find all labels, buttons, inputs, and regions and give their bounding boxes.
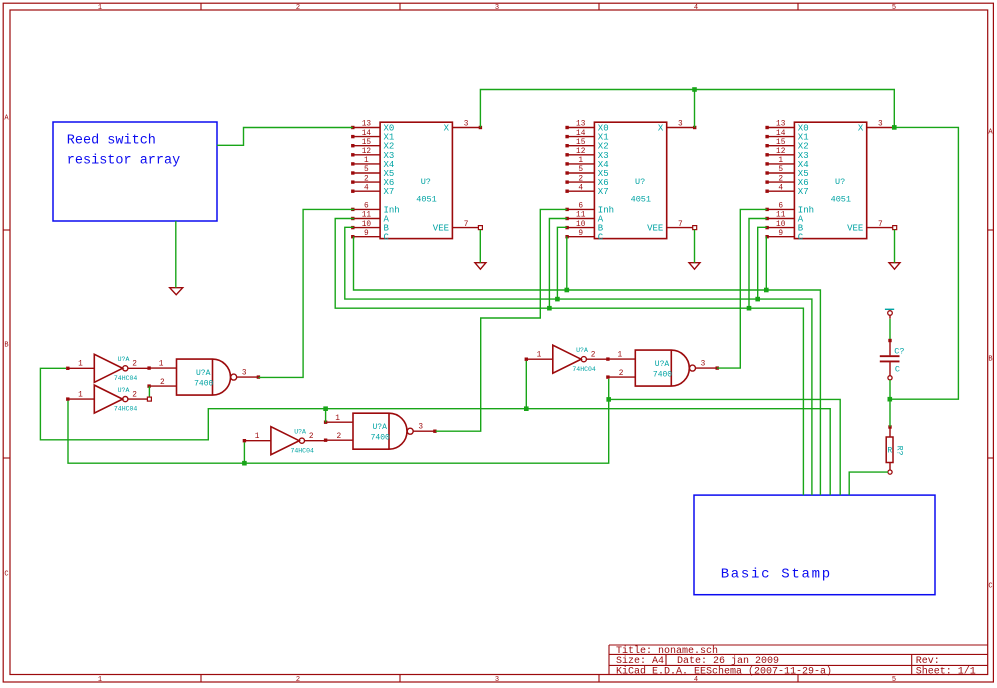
U1 pin 13 (X0): [351, 121, 394, 134]
svg-text:X: X: [658, 124, 664, 134]
U3 pin 13 (X0): [765, 121, 808, 134]
wire: U3 pin11 A to A net: [749, 219, 767, 309]
svg-text:74HC04: 74HC04: [114, 375, 138, 382]
wire: connector pin down to capacitor C?: [889, 319, 891, 339]
svg-text:9: 9: [364, 230, 369, 238]
svg-text:2: 2: [296, 676, 300, 684]
svg-text:10: 10: [362, 221, 372, 229]
wire: NAND U5A output to U1 Inh (pin 6): [258, 209, 354, 377]
svg-text:2: 2: [619, 370, 624, 378]
svg-text:1: 1: [255, 433, 260, 441]
wire: inverter U4B output up to NAND U5A pin 2: [148, 386, 150, 399]
wire: Reed sheet output to U1 X0 (pin 13): [217, 128, 353, 146]
svg-text:2: 2: [296, 4, 300, 12]
junction U2 B on B net: [555, 297, 560, 302]
svg-text:3: 3: [495, 4, 499, 12]
frame column numbers top 1-5: [98, 4, 896, 12]
U3 pin 5 (X5): [765, 166, 808, 179]
svg-text:Basic Stamp: Basic Stamp: [721, 567, 832, 583]
wire: U2 pin10 B to B net: [557, 227, 567, 299]
junction U3 A on A net: [747, 306, 752, 311]
U2 pin 2 (X6): [565, 175, 608, 188]
svg-text:14: 14: [362, 130, 372, 138]
svg-text:13: 13: [576, 121, 586, 129]
U2 pin 12 (X3): [565, 148, 608, 161]
svg-text:13: 13: [362, 121, 372, 129]
wire: tap to inverter U4C input: [243, 442, 245, 463]
svg-text:3: 3: [701, 361, 706, 369]
svg-text:Size: A4: Size: A4: [616, 655, 664, 667]
wire: Basic Stamp strobe net to U4A input / U5B pin1 / U4D input: [40, 368, 830, 495]
svg-text:4: 4: [778, 184, 783, 192]
svg-text:7400: 7400: [194, 379, 213, 388]
U1 pin 10 (B): [351, 221, 389, 234]
svg-text:7400: 7400: [653, 370, 672, 379]
svg-text:74HC04: 74HC04: [572, 366, 596, 373]
svg-text:15: 15: [576, 139, 586, 147]
svg-text:C: C: [598, 233, 604, 243]
U3 pin 15 (X2): [765, 139, 808, 152]
wire: U2 VEE to ground: [694, 230, 696, 263]
svg-text:74HC04: 74HC04: [290, 447, 314, 454]
svg-text:U?A: U?A: [118, 387, 130, 394]
svg-text:5: 5: [892, 4, 896, 12]
capacitor C?: [880, 339, 900, 380]
svg-text:U?: U?: [835, 177, 845, 187]
svg-text:3: 3: [878, 121, 883, 129]
svg-text:X7: X7: [598, 187, 609, 197]
inverter U4B (74HC04): [66, 385, 149, 413]
wire: U1 X output up and across top bus: [480, 90, 894, 128]
NAND gate U5B (7400): [324, 413, 437, 449]
inverter U4D (74HC04): [525, 345, 608, 373]
U2 pin 3 (X output): [658, 121, 697, 134]
U2 pin 15 (X2): [565, 139, 608, 152]
U3 pin 4 (X7): [765, 184, 808, 197]
svg-text:7: 7: [878, 221, 883, 229]
U1 pin 2 (X6): [351, 175, 394, 188]
U3 pin 12 (X3): [765, 148, 808, 161]
svg-text:12: 12: [576, 148, 586, 156]
multiplexer U3 (4051) body: [794, 122, 866, 238]
junction node C?/R?/U3-X: [888, 397, 893, 402]
U1 pin 4 (X7): [351, 184, 394, 197]
wire: U3 pin10 B to B net: [758, 227, 767, 299]
wire: select line C net - U1 pin9 across to Basic Stamp: [354, 236, 821, 495]
svg-text:2: 2: [132, 392, 137, 400]
svg-text:12: 12: [362, 148, 372, 156]
svg-text:2: 2: [336, 433, 341, 441]
U1 pin 6 (Inh): [351, 203, 400, 216]
U3 pin 1 (X4): [765, 157, 808, 170]
svg-text:7: 7: [678, 221, 683, 229]
U1 pin 7 (VEE): [433, 221, 483, 234]
multiplexer U1 (4051) body: [380, 122, 452, 238]
svg-text:VEE: VEE: [647, 224, 663, 234]
U3 pin 9 (C): [765, 230, 803, 243]
svg-text:2: 2: [591, 352, 596, 360]
wire: select line A net - U1 pin11 across to Basic Stamp: [335, 219, 803, 496]
multiplexer U2 (4051) body: [594, 122, 666, 238]
svg-text:VEE: VEE: [433, 224, 449, 234]
svg-text:C: C: [895, 364, 900, 374]
wire: NAND U5C output to U3 Inh (pin 6): [717, 209, 767, 368]
U2 pin 9 (C): [565, 230, 603, 243]
svg-text:4051: 4051: [831, 195, 851, 205]
junction strobe net / U5B pin1: [323, 406, 328, 411]
frame column numbers bottom 1-5: [98, 676, 896, 684]
wire: U5C pin2 down and across to U4B input: [68, 379, 609, 463]
wire: Basic Stamp clock net to NAND U5C pin2 vertical: [610, 399, 841, 495]
svg-text:C?: C?: [894, 346, 904, 356]
svg-text:1: 1: [98, 4, 102, 12]
wire: tap to inverter U4D input: [525, 361, 527, 409]
junction U3 C on C net: [764, 288, 769, 293]
svg-text:B: B: [988, 356, 992, 364]
junction U2 C on C net: [565, 288, 570, 293]
junction at U2 X output / top bus: [692, 87, 697, 92]
svg-text:14: 14: [776, 130, 786, 138]
frame row letters left A B C: [4, 115, 9, 579]
node: U4B output to U5A pin2 connection: [147, 397, 151, 401]
U3 pin 6 (Inh): [765, 203, 814, 216]
NAND gate U5A (7400): [147, 359, 260, 395]
U3 pin 14 (X1): [765, 130, 808, 143]
ground at U3 VEE: [889, 263, 900, 270]
svg-text:1: 1: [578, 157, 583, 165]
junction strobe net / U4D input: [524, 406, 529, 411]
svg-text:9: 9: [578, 230, 583, 238]
svg-text:X: X: [444, 124, 450, 134]
svg-text:7400: 7400: [371, 433, 390, 442]
svg-text:10: 10: [576, 221, 586, 229]
svg-text:4: 4: [694, 4, 698, 12]
svg-text:1: 1: [364, 157, 369, 165]
svg-text:10: 10: [776, 221, 786, 229]
svg-text:11: 11: [776, 212, 786, 220]
svg-text:3: 3: [418, 424, 423, 432]
svg-text:R?: R?: [895, 446, 904, 456]
wire: node down to resistor R? top: [889, 399, 891, 427]
frame row ticks right: [988, 230, 994, 458]
frame column ticks bottom: [201, 675, 798, 683]
svg-text:6: 6: [364, 203, 369, 211]
svg-text:1: 1: [78, 361, 83, 369]
wire: U1 VEE to ground: [479, 230, 481, 263]
svg-text:U?A: U?A: [196, 369, 211, 378]
junction clock net / U4C input: [242, 461, 247, 466]
svg-text:VEE: VEE: [847, 224, 863, 234]
svg-text:11: 11: [576, 212, 586, 220]
svg-text:2: 2: [364, 175, 369, 183]
svg-text:B: B: [4, 342, 8, 350]
U2 pin 4 (X7): [565, 184, 608, 197]
svg-text:4: 4: [578, 184, 583, 192]
U1 pin 5 (X5): [351, 166, 394, 179]
svg-text:A: A: [988, 129, 993, 137]
svg-text:X7: X7: [384, 187, 395, 197]
U2 pin 14 (X1): [565, 130, 608, 143]
wire: NAND U5B output to U2 Inh (pin 6): [436, 209, 567, 431]
svg-text:U?: U?: [635, 177, 645, 187]
svg-text:2: 2: [160, 379, 165, 387]
svg-text:KiCad E.D.A. EESchema (2007-1: KiCad E.D.A. EESchema (2007-11-29-a): [616, 665, 832, 677]
ground at U1 VEE: [475, 263, 486, 270]
svg-text:14: 14: [576, 130, 586, 138]
inverter U4A (74HC04): [66, 354, 149, 382]
svg-text:6: 6: [578, 203, 583, 211]
svg-text:12: 12: [776, 148, 786, 156]
title block outline: [609, 645, 988, 675]
U2 pin 1 (X4): [565, 157, 608, 170]
U3 pin 10 (B): [765, 221, 803, 234]
svg-text:Title: noname.sch: Title: noname.sch: [616, 645, 718, 657]
wire: U2 X output to top bus: [694, 90, 696, 128]
svg-text:U?A: U?A: [294, 428, 306, 435]
svg-text:X: X: [858, 124, 864, 134]
svg-text:13: 13: [776, 121, 786, 129]
svg-text:1: 1: [159, 361, 164, 369]
svg-text:1: 1: [537, 352, 542, 360]
wire: U2 pin11 A to A net: [549, 219, 567, 309]
U3 pin 7 (VEE): [847, 221, 897, 234]
svg-text:5: 5: [364, 166, 369, 174]
svg-text:R: R: [887, 447, 892, 456]
wire: U3 pin9 C to C net: [765, 236, 767, 290]
svg-text:Sheet: 1/1: Sheet: 1/1: [916, 665, 976, 677]
svg-text:Reed switch: Reed switch: [67, 134, 156, 149]
svg-text:4051: 4051: [631, 195, 651, 205]
svg-text:C: C: [4, 571, 8, 579]
junction at U3 X output pin: [892, 125, 897, 130]
svg-text:A: A: [4, 115, 9, 123]
svg-text:U?A: U?A: [118, 356, 130, 363]
wire: resistor R? bottom to Basic Stamp: [849, 472, 888, 495]
junction U3 B on B net: [755, 297, 760, 302]
NAND gate U5C (7400): [606, 350, 719, 386]
U1 pin 12 (X3): [351, 148, 394, 161]
svg-text:1: 1: [98, 676, 102, 684]
svg-text:5: 5: [778, 166, 783, 174]
sheet box: Basic Stamp: [694, 495, 935, 595]
U1 pin 9 (C): [351, 230, 389, 243]
svg-text:6: 6: [778, 203, 783, 211]
svg-text:C: C: [988, 583, 992, 591]
svg-text:4051: 4051: [416, 195, 436, 205]
U3 pin 11 (A): [765, 212, 803, 225]
svg-text:3: 3: [242, 370, 247, 378]
svg-text:2: 2: [778, 175, 783, 183]
frame row letters right A B C: [988, 129, 993, 591]
wire: select line B net - U1 pin10 across to Basic Stamp: [345, 227, 812, 495]
ground below Reed switch sheet: [170, 288, 183, 295]
connector pin P? (top of C?): [885, 309, 894, 319]
wire: U3 VEE to ground: [894, 230, 896, 263]
svg-text:15: 15: [776, 139, 786, 147]
U1 pin 15 (X2): [351, 139, 394, 152]
inverter U4C (74HC04): [243, 427, 326, 455]
U1 pin 14 (X1): [351, 130, 394, 143]
U3 pin 2 (X6): [765, 175, 808, 188]
svg-text:3: 3: [464, 121, 469, 129]
svg-text:3: 3: [495, 676, 499, 684]
U2 pin 5 (X5): [565, 166, 608, 179]
svg-text:15: 15: [362, 139, 372, 147]
U2 pin 10 (B): [565, 221, 603, 234]
svg-text:2: 2: [578, 175, 583, 183]
svg-text:resistor array: resistor array: [67, 153, 180, 168]
svg-text:C: C: [798, 233, 804, 243]
junction clock net on U5C pin2 vertical: [606, 397, 611, 402]
svg-text:1: 1: [335, 415, 340, 423]
svg-text:U?A: U?A: [576, 347, 588, 354]
U3 pin 3 (X output): [858, 121, 897, 134]
U2 pin 6 (Inh): [565, 203, 614, 216]
svg-text:U?A: U?A: [372, 423, 387, 432]
junction U2 A on A net: [547, 306, 552, 311]
frame row ticks left: [3, 230, 10, 458]
svg-text:4: 4: [364, 184, 369, 192]
U2 pin 11 (A): [565, 212, 603, 225]
wire: U2 pin9 C to C net: [566, 236, 568, 290]
svg-text:7: 7: [464, 221, 469, 229]
svg-text:X7: X7: [798, 187, 809, 197]
U1 pin 11 (A): [351, 212, 389, 225]
wire: tap to NAND U5B pin 1: [325, 409, 327, 423]
frame column ticks top: [201, 3, 798, 10]
ground at U2 VEE: [689, 263, 700, 270]
svg-text:11: 11: [362, 212, 372, 220]
sheet box: Reed switch resistor array: [53, 122, 217, 221]
U1 pin 1 (X4): [351, 157, 394, 170]
svg-text:U?A: U?A: [655, 360, 670, 369]
U2 pin 13 (X0): [565, 121, 608, 134]
wire: U3 X output right then down to C/R node: [891, 127, 958, 399]
svg-text:C: C: [384, 233, 390, 243]
svg-text:2: 2: [132, 361, 137, 369]
svg-text:Date: 26 jan 2009: Date: 26 jan 2009: [677, 655, 779, 667]
U1 pin 3 (X output): [444, 121, 483, 134]
svg-text:1: 1: [78, 392, 83, 400]
svg-text:1: 1: [778, 157, 783, 165]
svg-text:9: 9: [778, 230, 783, 238]
svg-text:3: 3: [678, 121, 683, 129]
svg-text:5: 5: [892, 676, 896, 684]
svg-text:74HC04: 74HC04: [114, 406, 138, 413]
wire: capacitor C? bottom to node: [889, 380, 891, 399]
resistor R?: [886, 425, 893, 474]
svg-text:1: 1: [618, 352, 623, 360]
svg-text:5: 5: [578, 166, 583, 174]
svg-text:2: 2: [309, 433, 314, 441]
svg-text:U?: U?: [421, 177, 431, 187]
U2 pin 7 (VEE): [647, 221, 697, 234]
wire: Reed sheet bottom to ground: [175, 221, 177, 288]
